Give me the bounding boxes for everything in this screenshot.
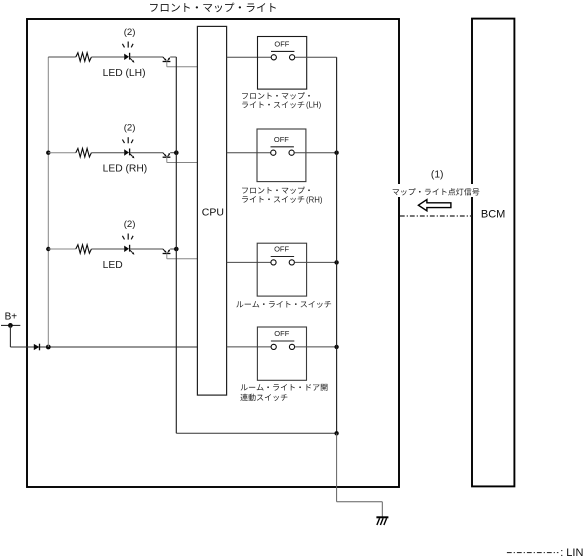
title フロント・マップ・ライト <box>150 3 276 13</box>
wire B+ stub <box>1 324 20 326</box>
wire to ground drop <box>336 433 338 501</box>
wire LIN signal dash-dot <box>400 215 472 217</box>
svg-text:(2): (2) <box>124 27 136 38</box>
svg-text:(1): (1) <box>431 170 444 181</box>
wire B+ vertical <box>9 325 11 347</box>
control unit outer box <box>27 19 399 487</box>
wire row 3 LED to transistor <box>130 248 163 250</box>
label switch S2 text <box>242 196 304 203</box>
wire switch S2 to right bus <box>294 152 336 154</box>
wire B+ feed to CPU <box>10 346 197 348</box>
wire transistor Q3 base lead <box>166 253 168 258</box>
svg-text:(RH): (RH) <box>306 195 323 204</box>
legend LIN dash-dot sample <box>507 552 559 554</box>
transistor Q3 <box>163 249 171 254</box>
wire switch S1 to right bus <box>295 56 337 58</box>
wire row 2 bus to resistor <box>48 152 76 154</box>
wire row 2 LED to transistor <box>130 152 163 154</box>
wire transistor Q3 collector to bus <box>170 248 176 250</box>
wire switch S3 to right bus <box>294 261 336 263</box>
junction left bus row 3 <box>46 247 50 251</box>
wire bottom return <box>176 432 336 434</box>
ground <box>376 517 388 525</box>
label switch S4 text <box>241 384 328 391</box>
resistor R3 <box>76 245 92 254</box>
op CPU box U1 <box>197 26 226 395</box>
label switch S4 text <box>240 394 287 401</box>
wire row 1 resistor to LED <box>91 56 124 58</box>
resistor R1 <box>76 53 92 62</box>
svg-text:CPU: CPU <box>202 206 224 218</box>
resistor R2 <box>76 148 92 157</box>
switch S3 room light switch <box>257 243 306 296</box>
wire transistor Q1 collector to bus <box>170 56 176 58</box>
switch S4 room light door switch <box>257 327 306 380</box>
switch S2 front map light switch (RH) <box>257 129 306 182</box>
svg-text:LED (LH): LED (LH) <box>103 68 146 79</box>
label マップ・ライト点灯信号 <box>393 188 480 195</box>
wire collector bus vertical <box>175 57 177 433</box>
junction right bus row 2 <box>334 151 338 155</box>
junction left bus row 2 <box>46 151 50 155</box>
junction B+ dot <box>8 323 13 328</box>
wire switch S4 to right bus <box>295 346 337 348</box>
wire left supply bus <box>47 57 49 347</box>
junction bottom return dot <box>334 431 338 435</box>
wire row 3 bus to resistor <box>48 248 76 250</box>
LED D3 LED (RH) <box>122 137 134 158</box>
wire CPU to switch S4 <box>227 346 272 348</box>
svg-text:OFF: OFF <box>274 245 289 254</box>
label switch S3 text <box>236 301 331 308</box>
junction right bus row 4 <box>334 345 338 349</box>
junction collector bus row 3 <box>174 247 179 252</box>
wire row 1 bus to resistor <box>48 56 76 58</box>
LED D4 LED <box>122 234 134 255</box>
wire CPU to switch S1 <box>227 56 272 58</box>
wire transistor Q1 base lead <box>166 61 168 66</box>
svg-text:(LH): (LH) <box>306 101 322 110</box>
junction left bus bottom dot <box>46 345 51 350</box>
svg-text:OFF: OFF <box>274 40 289 49</box>
svg-text:OFF: OFF <box>274 135 289 144</box>
junction right bus row 3 <box>334 260 338 264</box>
svg-text:LED (RH): LED (RH) <box>103 164 148 175</box>
wire CPU to switch S3 <box>227 261 271 263</box>
label switch S1 text <box>242 92 310 99</box>
BCM box U2 <box>472 19 514 487</box>
wire row 1 LED to transistor <box>130 56 163 58</box>
wire transistor Q2 collector to bus <box>170 152 176 154</box>
junction collector bus row 2 <box>174 150 179 155</box>
svg-text:(2): (2) <box>124 123 136 134</box>
transistor Q1 <box>163 57 171 62</box>
transistor Q2 <box>163 153 171 158</box>
svg-text:BCM: BCM <box>481 209 505 221</box>
svg-text:(2): (2) <box>124 219 136 230</box>
wire row 3 resistor to LED <box>91 248 124 250</box>
wire row 2 resistor to LED <box>91 152 124 154</box>
arrow map light signal direction <box>418 200 451 211</box>
wire right bus vertical <box>336 57 338 433</box>
svg-text:: LIN: : LIN <box>560 547 583 559</box>
LED D2 LED (LH) <box>122 42 134 63</box>
svg-text:LED: LED <box>103 260 123 271</box>
label switch S1 text <box>242 101 304 108</box>
svg-text:OFF: OFF <box>274 329 289 338</box>
switch S1 front map light switch (LH) <box>258 37 307 90</box>
wire CPU to switch S2 <box>227 152 271 154</box>
label マップ・ライト点灯信号 knockout <box>391 184 481 197</box>
wire transistor Q2 base lead <box>166 157 168 162</box>
label switch S2 text <box>242 187 310 194</box>
diode D1 <box>34 344 40 351</box>
svg-text:B+: B+ <box>5 312 18 323</box>
